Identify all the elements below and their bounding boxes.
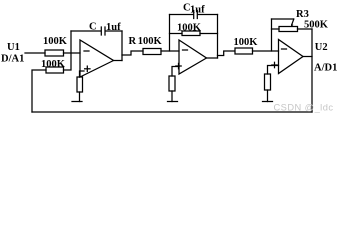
resistor R5 100K series: [143, 49, 161, 55]
svg-text:100K: 100K: [177, 23, 202, 34]
op-amp U1C minus pin: [282, 48, 287, 50]
svg-text:A/D1: A/D1: [314, 63, 337, 74]
wire R5 to op2 minus: [161, 50, 179, 52]
ground bar op3: [263, 101, 273, 103]
wire bottom feedback rail: [32, 111, 312, 113]
capacitor C2 wires: [170, 14, 194, 16]
wire op3 output: [303, 56, 312, 58]
wire jog to R5: [122, 51, 143, 55]
svg-text:100K: 100K: [41, 59, 66, 70]
resistor R6 100K feedback body: [182, 31, 200, 36]
potentiometer R3 wires: [272, 28, 280, 30]
wire feedback right drop op2: [217, 15, 219, 59]
potentiometer R3 body: [279, 27, 298, 32]
wire jog to R8: [218, 51, 235, 56]
wire output drop to rail: [311, 29, 313, 112]
svg-text:U2: U2: [315, 42, 328, 53]
resistor R2 100K feedback-in: [46, 67, 64, 73]
ground bar op2: [168, 101, 178, 103]
wire R4 to ground: [79, 92, 81, 102]
resistor R8 100K op3 input: [235, 48, 253, 54]
wire feedback left drop op3: [271, 19, 273, 51]
svg-text:R: R: [129, 36, 137, 47]
op-amp U1A minus pin: [84, 50, 89, 52]
op-amp U1B minus pin: [183, 49, 188, 51]
svg-text:D/A1: D/A1: [1, 54, 24, 65]
wire R8 to op3 minus: [253, 50, 279, 52]
capacitor C1 plates: [100, 27, 102, 35]
wire op2 output: [207, 57, 218, 59]
wire R7 to ground: [171, 91, 173, 102]
svg-text:U1: U1: [7, 42, 20, 53]
svg-text:1uf: 1uf: [190, 5, 205, 16]
resistor R6 100K feedback wires: [170, 33, 183, 35]
op-amp U1B plus pin: [176, 63, 181, 68]
resistor R1 100K input: [45, 50, 64, 56]
svg-text:100K: 100K: [43, 36, 68, 47]
svg-text:100K: 100K: [138, 36, 163, 47]
resistor R9 to ground: [265, 74, 271, 90]
wire riser from bottom rail: [32, 70, 46, 112]
op-amp U1A: [80, 40, 114, 77]
ground bar op1: [72, 101, 82, 103]
wire C1 right drop to output: [121, 31, 123, 61]
svg-text:100K: 100K: [234, 37, 259, 48]
potentiometer R3 top line: [272, 18, 294, 20]
op-amp U1C plus pin: [272, 62, 277, 67]
resistor R7 to ground: [169, 76, 175, 91]
wire plus input stub op2: [172, 67, 179, 77]
wire R1 to node A: [64, 52, 81, 54]
wire plus input stub op1: [80, 71, 85, 77]
capacitor C1 wires: [71, 30, 101, 32]
svg-text:500K: 500K: [304, 20, 329, 31]
op-amp U1A plus pin: [85, 66, 90, 71]
resistor R4 to ground: [77, 77, 83, 92]
wire feedback left drop op2: [169, 15, 171, 52]
svg-text:1uf: 1uf: [106, 22, 121, 33]
wire plus input stub op3: [268, 66, 279, 75]
potentiometer R3 wiper arrow: [291, 19, 294, 27]
op-amp U1B: [179, 40, 207, 74]
capacitor C2 plates: [193, 11, 195, 19]
svg-text:C: C: [89, 22, 97, 33]
wire R2 to node A: [64, 31, 72, 70]
wire R9 to ground: [267, 90, 269, 102]
svg-text:R3: R3: [296, 9, 309, 20]
wire input from D/A1: [25, 52, 45, 54]
op-amp U1C: [279, 40, 304, 74]
svg-text:CSDN @_ldc: CSDN @_ldc: [274, 102, 334, 112]
wire op1 output: [114, 60, 123, 62]
